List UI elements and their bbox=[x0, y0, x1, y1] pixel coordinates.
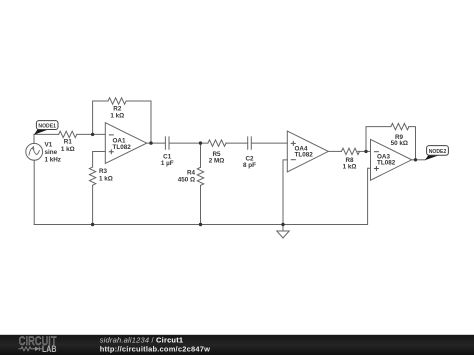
junction: C1 / R5 / R4 node bbox=[199, 141, 202, 144]
wire: R1 to OA1 inverting input bbox=[77, 133, 105, 135]
wire: R2 to output vertical bbox=[127, 101, 151, 143]
pin - of OA1 bbox=[109, 134, 114, 136]
resistor R8 bbox=[341, 148, 359, 154]
wire: V1 bottom to rail bbox=[33, 160, 35, 224]
capacitor C2 bbox=[248, 137, 252, 149]
svg-text:R1: R1 bbox=[64, 139, 73, 146]
junction: OA1 output / feedback bbox=[149, 141, 152, 144]
junction: R4 at rail bbox=[199, 223, 202, 226]
op-amp OA3 bbox=[371, 139, 412, 180]
junction: R1 / feedback tap bbox=[91, 133, 94, 136]
svg-text:LAB: LAB bbox=[42, 344, 57, 354]
svg-text:http://circuitlab.com/c2c847w: http://circuitlab.com/c2c847w bbox=[100, 344, 210, 353]
node NODE1 flag bbox=[34, 121, 58, 135]
svg-text:1 kΩ: 1 kΩ bbox=[343, 164, 357, 171]
wire: R3 to ground rail bbox=[92, 186, 94, 225]
svg-text:sine: sine bbox=[45, 149, 58, 156]
wire: R8 to OA3 - input bbox=[358, 150, 371, 152]
svg-text:V1: V1 bbox=[45, 141, 53, 148]
wire: OA3 output to NODE2 bbox=[412, 159, 425, 161]
wire: feedback tap up to R2 bbox=[93, 101, 108, 134]
junction: R3 at rail bbox=[91, 223, 94, 226]
svg-text:1 kΩ: 1 kΩ bbox=[61, 146, 75, 153]
pin + of OA3 bbox=[374, 166, 379, 171]
resistor R3 bbox=[89, 167, 95, 185]
svg-text:R2: R2 bbox=[113, 105, 122, 112]
junction: ground at rail bbox=[281, 223, 284, 226]
pin + of OA1 bbox=[109, 149, 114, 154]
wire: OA1 output to C1 bbox=[147, 142, 166, 144]
svg-text:450 Ω: 450 Ω bbox=[178, 176, 195, 183]
logo schematic line with resistor and diode bbox=[19, 347, 43, 351]
wire: R9 to output vertical bbox=[409, 127, 416, 160]
wire: ground rail bbox=[34, 168, 370, 224]
wire: R9 feedback loop bbox=[366, 127, 391, 152]
op-amp OA4 bbox=[287, 131, 328, 172]
svg-text:R3: R3 bbox=[99, 168, 108, 175]
ground bbox=[277, 225, 289, 239]
capacitor C1 bbox=[165, 137, 169, 149]
wire: R5 to C2 bbox=[226, 142, 248, 144]
wire: node B down to R4 bbox=[200, 143, 202, 167]
op-amp OA1 bbox=[105, 123, 146, 164]
svg-text:8 pF: 8 pF bbox=[243, 162, 256, 169]
pin - of OA4 bbox=[291, 159, 296, 161]
wire: node A to R1 bbox=[34, 133, 59, 135]
junction: R8 / R9 feedback bbox=[364, 150, 367, 153]
svg-text:1 µF: 1 µF bbox=[161, 160, 174, 167]
wire: C2 to OA4 + input bbox=[251, 142, 287, 144]
svg-text:TL082: TL082 bbox=[295, 152, 314, 159]
svg-text:2 MΩ: 2 MΩ bbox=[209, 158, 225, 165]
svg-text:1 kHz: 1 kHz bbox=[45, 157, 61, 164]
svg-text:NODE1: NODE1 bbox=[38, 123, 56, 129]
wire: OA4 output to R8 bbox=[328, 150, 341, 152]
resistor R2 bbox=[108, 98, 126, 104]
resistor R1 bbox=[59, 131, 77, 137]
wire: R4 to rail bbox=[200, 185, 202, 224]
wire: C1 to R5 bbox=[169, 142, 208, 144]
resistor R4 bbox=[197, 167, 203, 185]
wire: OA4 - input down to rail bbox=[283, 160, 287, 225]
svg-text:NODE2: NODE2 bbox=[429, 149, 447, 155]
svg-text:sidrah.ali1234 / Circut1: sidrah.ali1234 / Circut1 bbox=[100, 336, 184, 345]
svg-text:50 kΩ: 50 kΩ bbox=[391, 140, 408, 147]
svg-text:TL082: TL082 bbox=[377, 160, 396, 167]
svg-text:1 kΩ: 1 kΩ bbox=[110, 112, 124, 119]
svg-text:1 kΩ: 1 kΩ bbox=[99, 175, 113, 182]
wire: V1 top bbox=[33, 134, 35, 143]
resistor R9 bbox=[391, 123, 409, 129]
pin - of OA3 bbox=[374, 151, 379, 153]
resistor R5 bbox=[208, 140, 226, 146]
svg-text:TL082: TL082 bbox=[113, 144, 132, 151]
node NODE2 flag bbox=[425, 146, 449, 161]
junction: OA3 output / R9 bbox=[414, 158, 417, 161]
wire: OA1 + input to R3 bbox=[93, 152, 106, 168]
pin + of OA4 bbox=[291, 141, 296, 146]
source V1 bbox=[26, 143, 43, 160]
